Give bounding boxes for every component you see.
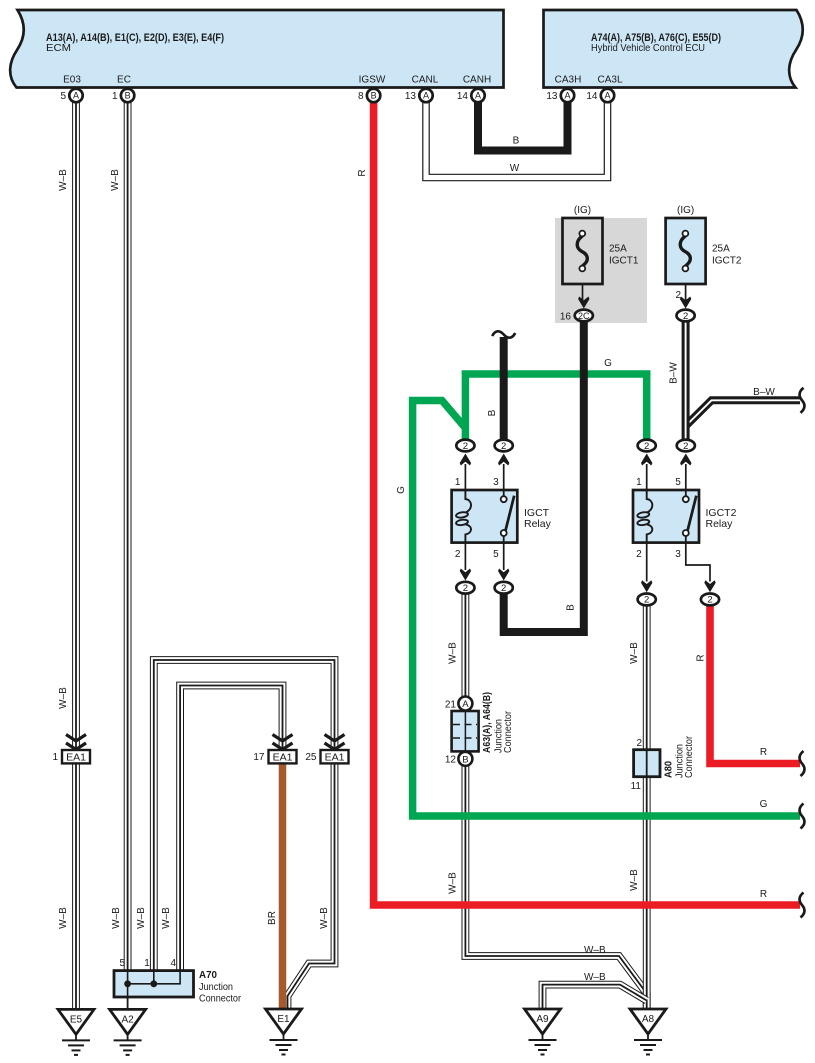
svg-text:R: R <box>357 169 368 176</box>
svg-text:EA1: EA1 <box>325 752 345 764</box>
svg-text:3: 3 <box>675 549 681 560</box>
wire B from break symbol down to IGCT relay pin 3 <box>500 337 508 440</box>
arrow into fuse IGCT2 terminal oval <box>680 297 691 309</box>
svg-text:2: 2 <box>501 583 506 594</box>
svg-text:B: B <box>125 91 131 101</box>
svg-text:13: 13 <box>546 91 558 102</box>
ground E5 <box>58 1009 94 1055</box>
svg-text:CA3H: CA3H <box>555 75 582 86</box>
arrow into oval above IGCT relay pin 3 <box>498 454 509 466</box>
wire R from ECM IGSW pin 8B down and across to right edge <box>374 100 800 905</box>
fuse IGCT1 gray background panel <box>555 218 647 323</box>
svg-text:W–B: W–B <box>58 907 69 929</box>
wire G from IGCT relay pin 1 over to IGCT2 relay pin 1 <box>465 374 646 440</box>
junction connector A63(A), A64(B) <box>452 697 479 766</box>
lead from IGCT2 relay pin 2 <box>646 543 648 582</box>
arrow into oval below IGCT relay pin 5 <box>498 569 509 581</box>
svg-text:Connector: Connector <box>502 711 514 753</box>
EA1 connector 1 box <box>62 750 90 764</box>
svg-text:E1: E1 <box>277 1014 290 1025</box>
ECM pin E03 circle A <box>69 89 82 102</box>
arrow into terminal 2C <box>578 297 589 309</box>
svg-text:5: 5 <box>493 549 499 560</box>
svg-text:1: 1 <box>636 477 642 488</box>
svg-text:Relay: Relay <box>524 518 552 530</box>
ground A9 <box>525 1009 561 1055</box>
svg-text:8: 8 <box>358 91 364 102</box>
svg-text:W–B: W–B <box>448 872 459 894</box>
lead to IGCT relay pin 3 <box>503 464 505 490</box>
arrow into oval below IGCT relay pin 2 <box>460 569 471 581</box>
svg-text:Junction: Junction <box>199 981 233 993</box>
svg-text:A: A <box>462 699 469 710</box>
svg-text:W–B: W–B <box>111 907 122 929</box>
svg-text:2: 2 <box>501 441 506 452</box>
svg-text:2: 2 <box>644 441 649 452</box>
arrow into oval above IGCT2 relay pin 5 <box>680 454 691 466</box>
svg-text:W–B: W–B <box>629 642 640 664</box>
connector oval 2 above IGCT relay pin 3 <box>495 440 513 452</box>
ECM pin CANL circle A <box>419 89 432 102</box>
svg-text:(IG): (IG) <box>677 205 694 216</box>
svg-text:Connector: Connector <box>199 993 241 1005</box>
svg-text:1: 1 <box>144 958 150 969</box>
svg-text:CANL: CANL <box>412 75 439 86</box>
wire W-B branch to ground A9 <box>543 985 647 1010</box>
ground A8 <box>630 1009 666 1055</box>
svg-text:A70: A70 <box>199 969 217 981</box>
svg-text:1: 1 <box>52 752 58 763</box>
svg-text:2C: 2C <box>578 311 590 321</box>
wire W-B from IGCT relay pin 2 through junction connector A63/A64 down to ground A8 <box>465 593 646 1010</box>
lead from fuse IGCT1 to connector <box>582 284 584 303</box>
wire B (CAN high) from ECM CANH 14A to HV ECU CA3H 13A <box>478 100 568 151</box>
svg-text:R: R <box>696 654 707 661</box>
wire W-B from IGCT2 relay pin 2 through junction connector A80 down to ground A8 <box>643 605 651 1010</box>
svg-text:25A: 25A <box>712 244 730 255</box>
svg-text:Relay: Relay <box>706 518 734 530</box>
relay IGCT coil <box>456 490 471 543</box>
break symbol wire G right edge <box>800 804 805 829</box>
break symbol wire R right edge <box>800 751 805 776</box>
connector oval 2 above IGCT2 relay pin 5 <box>677 440 695 452</box>
svg-text:B: B <box>566 604 577 611</box>
svg-text:A: A <box>564 91 570 101</box>
svg-text:A9: A9 <box>536 1014 549 1025</box>
svg-text:W–B: W–B <box>136 907 147 929</box>
svg-text:B: B <box>513 136 520 147</box>
arrow into oval above IGCT relay pin 1 <box>460 454 471 466</box>
break symbol on wire B top <box>492 331 515 337</box>
svg-text:3: 3 <box>493 477 499 488</box>
svg-text:W–B: W–B <box>448 642 459 664</box>
wire B from IGCT relay pin 5 to fuse IGCT1 terminal 2C <box>504 321 584 632</box>
svg-text:B–W: B–W <box>753 387 775 398</box>
svg-text:2: 2 <box>636 549 642 560</box>
wire W-B from EA1 connector down to ground E5 <box>72 762 80 1010</box>
lead to IGCT2 relay pin 5 <box>685 464 687 490</box>
svg-text:B–W: B–W <box>669 362 680 384</box>
arrow chevrons into EA1 connector 25 <box>325 735 345 750</box>
svg-text:IGCT1: IGCT1 <box>609 256 639 267</box>
connector oval 2 below IGCT2 relay pin 2 <box>638 594 656 606</box>
svg-text:G: G <box>760 799 768 810</box>
svg-text:A: A <box>604 91 610 101</box>
wire W-B from ECM E03 pin 5A down to EA1 connector 1 <box>72 100 80 751</box>
relay IGCT2 coil <box>637 490 652 543</box>
svg-text:EA1: EA1 <box>273 752 293 764</box>
junction connector A80 <box>634 750 660 777</box>
svg-text:B: B <box>371 91 377 101</box>
Hybrid Vehicle Control ECU box A74(A), A75(B), A76(C), E55(D) <box>544 10 803 88</box>
wire BR from EA1 connector 17 down to ground E1 <box>279 762 287 1010</box>
svg-text:25A: 25A <box>609 244 627 255</box>
svg-text:B: B <box>462 754 468 765</box>
lead to IGCT relay pin 1 <box>464 464 466 490</box>
arrow into oval below IGCT2 relay pin 2 <box>641 580 652 592</box>
svg-text:W–B: W–B <box>584 972 606 983</box>
svg-text:W–B: W–B <box>319 907 330 929</box>
svg-text:W–B: W–B <box>110 169 121 191</box>
svg-text:14: 14 <box>457 91 469 102</box>
svg-text:5: 5 <box>60 91 66 102</box>
wire R from IGCT2 relay pin 3 down and across to right edge <box>710 605 800 764</box>
svg-text:16: 16 <box>560 312 572 323</box>
wire W-B from EA1 connector 25 down to ground E1 <box>288 762 335 1010</box>
lead from IGCT relay pin 5 <box>503 543 505 570</box>
svg-text:2: 2 <box>455 549 461 560</box>
terminal oval 2C of fuse IGCT1 <box>575 310 593 322</box>
break symbol wire R bottom right edge <box>800 893 805 918</box>
lead from A70 to ground A2 <box>127 997 129 1010</box>
svg-text:2: 2 <box>707 595 712 606</box>
svg-text:25: 25 <box>305 752 317 763</box>
svg-text:1: 1 <box>112 91 118 102</box>
arrow chevrons into EA1 connector 17 <box>273 735 293 750</box>
svg-text:EA1: EA1 <box>66 752 86 764</box>
svg-text:2: 2 <box>463 441 468 452</box>
svg-text:5: 5 <box>119 958 125 969</box>
svg-text:17: 17 <box>253 752 265 763</box>
svg-text:11: 11 <box>631 781 642 792</box>
svg-text:Connector: Connector <box>683 736 695 778</box>
relay IGCT (box) <box>452 490 518 543</box>
svg-text:W: W <box>510 163 520 174</box>
svg-text:W–B: W–B <box>58 169 69 191</box>
ground E1 <box>266 1009 302 1055</box>
svg-text:A: A <box>423 91 429 101</box>
connector oval 2 below IGCT relay pin 2 <box>456 582 474 594</box>
lead from IGCT relay pin 2 <box>464 543 466 570</box>
terminal oval 2 of fuse IGCT2 <box>677 310 695 322</box>
svg-text:14: 14 <box>586 91 598 102</box>
lead from fuse IGCT2 to connector <box>685 284 687 303</box>
wire B-W branch to right edge <box>686 400 800 426</box>
wire W-B loop from A70 pin 4 up and over to EA1 connector 17 <box>180 686 282 972</box>
fuse 25A IGCT1 <box>563 218 603 284</box>
connector oval 2 below IGCT2 relay pin 3 <box>701 594 719 606</box>
svg-text:1: 1 <box>455 477 461 488</box>
ECM pin CANH circle A <box>471 89 484 102</box>
lead from IGCT2 relay pin 3 <box>686 543 710 582</box>
svg-text:A8: A8 <box>642 1014 655 1025</box>
svg-text:R: R <box>760 747 767 758</box>
ECM pin IGSW circle B <box>367 89 380 102</box>
svg-text:5: 5 <box>675 477 681 488</box>
svg-text:21: 21 <box>445 700 457 711</box>
lead to IGCT2 relay pin 1 <box>646 464 648 490</box>
relay IGCT2 switch <box>683 490 697 543</box>
ECM box A13(A), A14(B), E1(C), E2(D), E3(E), E4(F) <box>10 10 503 88</box>
svg-text:G: G <box>396 486 407 494</box>
wire W-B loop from A70 pin 1 up and over to EA1 connector 25 <box>154 660 335 971</box>
svg-text:12: 12 <box>445 755 457 766</box>
svg-text:E5: E5 <box>70 1014 83 1025</box>
ECM pin EC circle B <box>121 89 134 102</box>
svg-text:A: A <box>475 91 481 101</box>
svg-text:13: 13 <box>405 91 417 102</box>
svg-text:A: A <box>73 91 79 101</box>
svg-text:B: B <box>487 409 498 416</box>
HV ECU pin CA3L circle A <box>601 89 614 102</box>
svg-text:W–B: W–B <box>58 687 69 709</box>
relay IGCT2 (box) <box>633 490 699 543</box>
svg-text:W–B: W–B <box>161 907 172 929</box>
svg-text:W–B: W–B <box>629 869 640 891</box>
svg-text:A63(A), A64(B): A63(A), A64(B) <box>481 692 493 753</box>
relay IGCT switch <box>501 490 515 543</box>
connector oval 2 above IGCT relay pin 1 <box>456 440 474 452</box>
svg-text:(IG): (IG) <box>574 205 591 216</box>
svg-text:BR: BR <box>267 911 278 925</box>
svg-text:2: 2 <box>463 583 468 594</box>
connector oval 2 above IGCT2 relay pin 1 <box>638 440 656 452</box>
svg-text:2: 2 <box>683 441 688 452</box>
arrow into oval below IGCT2 relay pin 3 <box>704 580 715 592</box>
svg-text:W–B: W–B <box>584 945 606 956</box>
break symbol wire B-W right edge <box>800 388 805 413</box>
wire B-W from fuse IGCT2 down to IGCT2 relay pin 5 <box>682 321 690 440</box>
junction connector A70 <box>114 971 194 997</box>
svg-text:E03: E03 <box>63 75 81 86</box>
svg-text:ECM: ECM <box>46 42 71 54</box>
svg-text:G: G <box>604 358 612 369</box>
fuse 25A IGCT2 <box>666 218 706 284</box>
svg-text:4: 4 <box>171 958 177 969</box>
arrow into oval above IGCT2 relay pin 1 <box>641 454 652 466</box>
svg-text:EC: EC <box>117 75 131 86</box>
svg-text:R: R <box>760 889 767 900</box>
arrow chevrons into EA1 connector 1 <box>66 735 86 750</box>
EA1 connector 25 box <box>321 750 349 764</box>
HV ECU pin CA3H circle A <box>561 89 574 102</box>
svg-text:2: 2 <box>644 595 649 606</box>
svg-text:A2: A2 <box>121 1014 134 1025</box>
svg-text:CANH: CANH <box>463 75 491 86</box>
wire G branch down and across to right edge <box>413 401 800 817</box>
wire W-B from ECM EC pin 1B down to junction connector A70 pin 5 <box>124 100 132 971</box>
wire W (CAN low) from ECM CANL 13A to HV ECU CA3L 14A <box>426 100 608 178</box>
connector oval 2 below IGCT relay pin 5 <box>495 582 513 594</box>
svg-text:Hybrid Vehicle Control ECU: Hybrid Vehicle Control ECU <box>591 42 705 54</box>
svg-text:IGCT2: IGCT2 <box>712 256 742 267</box>
svg-text:CA3L: CA3L <box>597 75 622 86</box>
svg-text:IGSW: IGSW <box>359 75 386 86</box>
EA1 connector 17 box <box>269 750 297 764</box>
svg-text:A13(A), A14(B), E1(C), E2(D),: A13(A), A14(B), E1(C), E2(D), E3(E), E4(… <box>46 32 224 44</box>
ground A2 <box>110 1009 146 1055</box>
svg-text:2: 2 <box>683 311 688 322</box>
svg-text:2: 2 <box>636 738 642 749</box>
